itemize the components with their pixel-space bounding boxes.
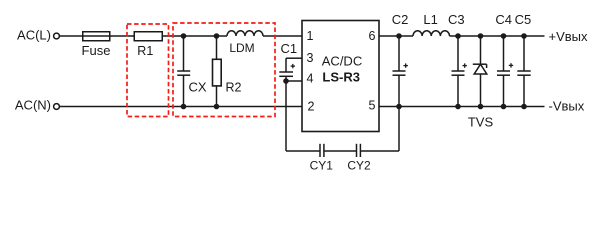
svg-text:AC/DC: AC/DC: [322, 54, 362, 69]
svg-text:LS-R3: LS-R3: [322, 70, 360, 85]
svg-text:5: 5: [369, 99, 376, 113]
svg-text:Fuse: Fuse: [82, 43, 111, 58]
svg-text:CY1: CY1: [310, 159, 334, 173]
svg-text:C3: C3: [448, 12, 465, 27]
svg-text:C5: C5: [515, 12, 532, 27]
svg-text:3: 3: [307, 51, 314, 65]
svg-text:1: 1: [307, 29, 314, 43]
svg-text:CX: CX: [189, 80, 207, 95]
svg-text:4: 4: [307, 72, 314, 86]
svg-text:-Vвых: -Vвых: [549, 99, 585, 114]
svg-text:6: 6: [369, 29, 376, 43]
svg-text:C1: C1: [281, 41, 298, 56]
svg-text:L1: L1: [423, 12, 437, 27]
svg-text:LDM: LDM: [229, 41, 254, 55]
svg-text:C4: C4: [495, 12, 512, 27]
svg-text:TVS: TVS: [468, 115, 494, 130]
svg-text:AC(L): AC(L): [17, 28, 51, 43]
svg-text:2: 2: [308, 100, 315, 114]
svg-text:R1: R1: [137, 44, 153, 58]
svg-text:+Vвых: +Vвых: [549, 29, 589, 44]
svg-text:C2: C2: [392, 12, 409, 27]
svg-text:CY2: CY2: [347, 159, 371, 173]
svg-text:R2: R2: [226, 81, 242, 95]
svg-text:AC(N): AC(N): [15, 98, 51, 113]
